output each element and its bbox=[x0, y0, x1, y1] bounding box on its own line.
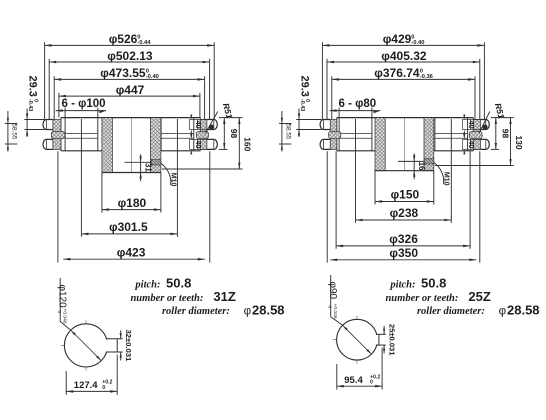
right sprocket: boxed dimension 40 lower bbox=[463, 139, 477, 149]
svg-text:28.58: 28.58 bbox=[252, 302, 285, 317]
right bore view: bore circle with keyway bbox=[337, 319, 386, 360]
right sprocket: dimension 16 to M10 axis bbox=[413, 153, 426, 179]
right bore view: dimension 95.4 bore to key bbox=[337, 348, 382, 390]
svg-text:φ301.5: φ301.5 bbox=[109, 220, 148, 234]
right bore view: bore diameter line bbox=[343, 325, 372, 354]
svg-text:40: 40 bbox=[194, 120, 203, 128]
svg-text:31: 31 bbox=[143, 163, 152, 172]
svg-text:-0.43: -0.43 bbox=[27, 99, 33, 111]
left sprocket: tooth row 2 right bbox=[207, 139, 217, 149]
left bore view: keyway width dimension 32±0.031 bbox=[120, 330, 133, 362]
svg-text:φ429: φ429 bbox=[383, 32, 412, 46]
svg-text:98: 98 bbox=[500, 129, 510, 139]
right sprocket: diameter dimension 350 (lower) bbox=[330, 246, 476, 261]
left bore view: bore diameter line bbox=[71, 330, 102, 361]
svg-text:40: 40 bbox=[194, 140, 203, 148]
left sprocket: hatched root ring left bbox=[51, 131, 65, 138]
left sprocket: hatched rim section left bbox=[53, 120, 61, 150]
svg-text:roller diameter:: roller diameter: bbox=[162, 306, 230, 317]
right sprocket: long extension line left bbox=[326, 151, 328, 262]
left sprocket: radius leader R51 bbox=[205, 102, 234, 133]
svg-text:φ405.32: φ405.32 bbox=[381, 49, 427, 63]
svg-text:φ502.13: φ502.13 bbox=[107, 49, 153, 63]
left sprocket: web contour seen through holes bbox=[65, 133, 194, 138]
right sprocket: tooth row 1 left bbox=[320, 120, 330, 130]
right sprocket: web contour seen through holes bbox=[339, 133, 468, 138]
left specs: spec roller diameter 28.58 bbox=[162, 302, 285, 317]
svg-text:φ423: φ423 bbox=[117, 245, 146, 259]
svg-text:-0.43: -0.43 bbox=[299, 99, 305, 111]
svg-text:25Z: 25Z bbox=[468, 289, 490, 304]
right bore view: bore diameter label φ90 bbox=[326, 275, 342, 325]
left sprocket: tapped hole M10 with leader bbox=[124, 160, 176, 187]
left sprocket: sprocket plate outline bbox=[61, 118, 200, 151]
svg-text:φ447: φ447 bbox=[116, 83, 145, 97]
svg-text:φ376.74: φ376.74 bbox=[374, 66, 420, 80]
right sprocket: axis centerline bbox=[404, 118, 406, 171]
svg-text:φ238: φ238 bbox=[390, 206, 419, 220]
svg-text:29.3: 29.3 bbox=[27, 76, 39, 97]
left sprocket: diameter dimension 447 bbox=[59, 83, 200, 118]
left sprocket: right lightening hole edges bbox=[161, 118, 194, 151]
left sprocket: arrows for boxed 40 dims bbox=[190, 115, 192, 155]
svg-text:-0.36: -0.36 bbox=[420, 74, 434, 80]
svg-text:6 - φ100: 6 - φ100 bbox=[62, 98, 106, 110]
right bore view: bore view centerlines bbox=[333, 316, 379, 364]
svg-text:number or teeth:: number or teeth: bbox=[130, 293, 203, 304]
svg-text:φ120: φ120 bbox=[56, 285, 67, 309]
right sprocket: hub with bore (section) bbox=[375, 118, 434, 171]
left sprocket: long extension line left bbox=[57, 151, 59, 262]
right sprocket: tooth row 2 right bbox=[481, 139, 490, 149]
right sprocket: dimension 58.55 transverse pitch bbox=[279, 111, 292, 152]
left sprocket: hatched rim section right bbox=[200, 120, 207, 150]
right specs: spec number of teeth bbox=[385, 289, 490, 304]
right sprocket: tooth row edge extension lines bbox=[471, 120, 481, 150]
svg-text:φ: φ bbox=[499, 305, 506, 317]
right sprocket: hatched rim section right bbox=[473, 120, 480, 150]
svg-text:50.8: 50.8 bbox=[166, 276, 191, 291]
svg-text:6 - φ80: 6 - φ80 bbox=[339, 98, 377, 110]
svg-text:φ180: φ180 bbox=[118, 196, 147, 210]
svg-text:+0.046: +0.046 bbox=[61, 309, 67, 324]
right sprocket: arrows for boxed 40 dims bbox=[463, 115, 465, 155]
svg-text:0: 0 bbox=[102, 385, 105, 391]
right sprocket: dimension 130 overall height bbox=[435, 118, 524, 166]
right sprocket: radius leader R51 bbox=[479, 102, 507, 133]
right sprocket: tooth row 1 right bbox=[481, 120, 490, 130]
left specs: spec number of teeth bbox=[130, 289, 235, 304]
left sprocket: hole pattern dimension 6 - φ100 bbox=[56, 98, 107, 151]
left sprocket: dimension 160 overall height bbox=[162, 118, 253, 169]
right sprocket: hatched root ring left bbox=[329, 131, 341, 138]
svg-text:0: 0 bbox=[326, 306, 332, 309]
left specs: spec pitch 50.8 bbox=[134, 276, 191, 291]
svg-text:32±0.031: 32±0.031 bbox=[124, 330, 133, 362]
svg-text:58.55: 58.55 bbox=[284, 124, 291, 140]
left sprocket: diameter dimension 423 (lower) bbox=[63, 245, 205, 260]
left sprocket: boxed dimension 40 lower bbox=[190, 139, 204, 149]
right sprocket: diameter dimension 405.32 bbox=[327, 49, 480, 124]
left bore view: bore view centerlines bbox=[61, 320, 118, 370]
left sprocket: diameter dimension 502.13 bbox=[49, 49, 209, 124]
svg-text:98: 98 bbox=[229, 129, 239, 139]
right sprocket: sprocket plate outline bbox=[337, 118, 474, 151]
right specs: spec roller diameter 28.58 bbox=[417, 302, 540, 317]
svg-text:0: 0 bbox=[370, 380, 373, 386]
left sprocket: diameter dimension 180 (lower) bbox=[102, 173, 161, 213]
left sprocket: tooth row 1 left bbox=[43, 120, 53, 130]
svg-text:16: 16 bbox=[417, 162, 426, 171]
left bore view: dimension 127.4 bore to key bbox=[66, 355, 117, 395]
right bore view: keyway width dimension 25±0.031 bbox=[383, 324, 396, 356]
left sprocket: dimension 31 to M10 axis bbox=[139, 154, 152, 181]
right sprocket: hatched root ring right bbox=[469, 131, 482, 138]
svg-text:0: 0 bbox=[56, 311, 62, 314]
svg-text:roller diameter:: roller diameter: bbox=[417, 306, 485, 317]
right sprocket: dimension 29.3 tooth width bbox=[296, 76, 321, 138]
right sprocket: diameter dimension 429 bbox=[322, 32, 484, 119]
right sprocket: tooth row 2 left bbox=[320, 139, 330, 149]
svg-text:40: 40 bbox=[467, 120, 476, 128]
left sprocket: diameter dimension 301.5 (lower) bbox=[81, 119, 177, 237]
right sprocket: long extension line right bbox=[479, 151, 481, 262]
right sprocket: right lightening hole edges bbox=[435, 118, 468, 151]
svg-text:φ350: φ350 bbox=[389, 246, 418, 260]
right sprocket: tapped hole M10 with leader bbox=[398, 159, 450, 186]
left sprocket: dimension 98 teeth zone bbox=[219, 118, 243, 150]
svg-text:160: 160 bbox=[243, 137, 253, 151]
left sprocket: tooth row 1 right bbox=[207, 120, 217, 130]
left sprocket: boxed dimension 40 upper bbox=[190, 120, 204, 130]
svg-text:φ473.55: φ473.55 bbox=[100, 66, 146, 80]
svg-text:pitch:: pitch: bbox=[389, 280, 415, 291]
svg-text:130: 130 bbox=[514, 135, 524, 149]
svg-text:M10: M10 bbox=[443, 172, 450, 186]
left sprocket: dimension 29.3 tooth width bbox=[24, 76, 44, 138]
svg-text:58.55: 58.55 bbox=[10, 124, 17, 140]
svg-text:-0.40: -0.40 bbox=[146, 74, 159, 80]
right sprocket: diameter dimension 238 (lower) bbox=[356, 119, 452, 223]
svg-text:31Z: 31Z bbox=[213, 289, 235, 304]
svg-text:-0.40: -0.40 bbox=[411, 40, 424, 46]
svg-text:φ150: φ150 bbox=[391, 188, 420, 202]
svg-text:φ326: φ326 bbox=[389, 232, 418, 246]
left sprocket: hatched root ring right bbox=[196, 131, 208, 138]
svg-text:29.3: 29.3 bbox=[299, 76, 311, 97]
svg-text:pitch:: pitch: bbox=[134, 280, 160, 291]
right sprocket: boxed dimension 40 upper bbox=[463, 120, 477, 130]
right sprocket: hole pattern dimension 6 - φ80 bbox=[330, 98, 381, 151]
svg-text:φ90: φ90 bbox=[327, 282, 338, 300]
svg-text:95.4: 95.4 bbox=[344, 375, 363, 386]
left sprocket: dimension 58.55 transverse pitch bbox=[5, 111, 18, 152]
right sprocket: dimension 98 teeth zone bbox=[491, 118, 514, 150]
left sprocket: hub with bore (section) bbox=[102, 118, 161, 173]
svg-text:M10: M10 bbox=[170, 173, 177, 187]
right sprocket: hatched rim section left bbox=[330, 120, 337, 150]
left sprocket: tooth row edge extension lines bbox=[198, 120, 207, 150]
right sprocket: diameter dimension 376.74 bbox=[332, 66, 475, 131]
left bore view: bore diameter label φ120 bbox=[56, 278, 71, 330]
svg-text:number or teeth:: number or teeth: bbox=[385, 293, 458, 304]
right sprocket: diameter dimension 150 (lower) bbox=[375, 171, 434, 205]
svg-text:40: 40 bbox=[467, 140, 476, 148]
left sprocket: tooth row 2 left bbox=[43, 139, 53, 149]
svg-text:28.58: 28.58 bbox=[507, 302, 540, 317]
svg-text:φ526: φ526 bbox=[109, 32, 138, 46]
svg-text:127.4: 127.4 bbox=[74, 380, 98, 391]
left sprocket: axis centerline bbox=[130, 118, 132, 172]
left sprocket: long extension line right bbox=[209, 151, 211, 262]
right specs: spec pitch 50.8 bbox=[389, 276, 446, 291]
left sprocket: diameter dimension 526 bbox=[45, 32, 215, 119]
svg-text:-0.44: -0.44 bbox=[137, 40, 151, 46]
left sprocket: diameter dimension 473.55 bbox=[54, 66, 204, 131]
svg-text:φ: φ bbox=[244, 305, 251, 317]
svg-text:25±0.031: 25±0.031 bbox=[387, 324, 396, 356]
right sprocket: diameter dimension 326 (lower) bbox=[336, 151, 470, 249]
left bore view: bore circle with keyway bbox=[64, 324, 122, 367]
svg-text:50.8: 50.8 bbox=[421, 276, 446, 291]
svg-text:+0.046: +0.046 bbox=[332, 304, 338, 319]
